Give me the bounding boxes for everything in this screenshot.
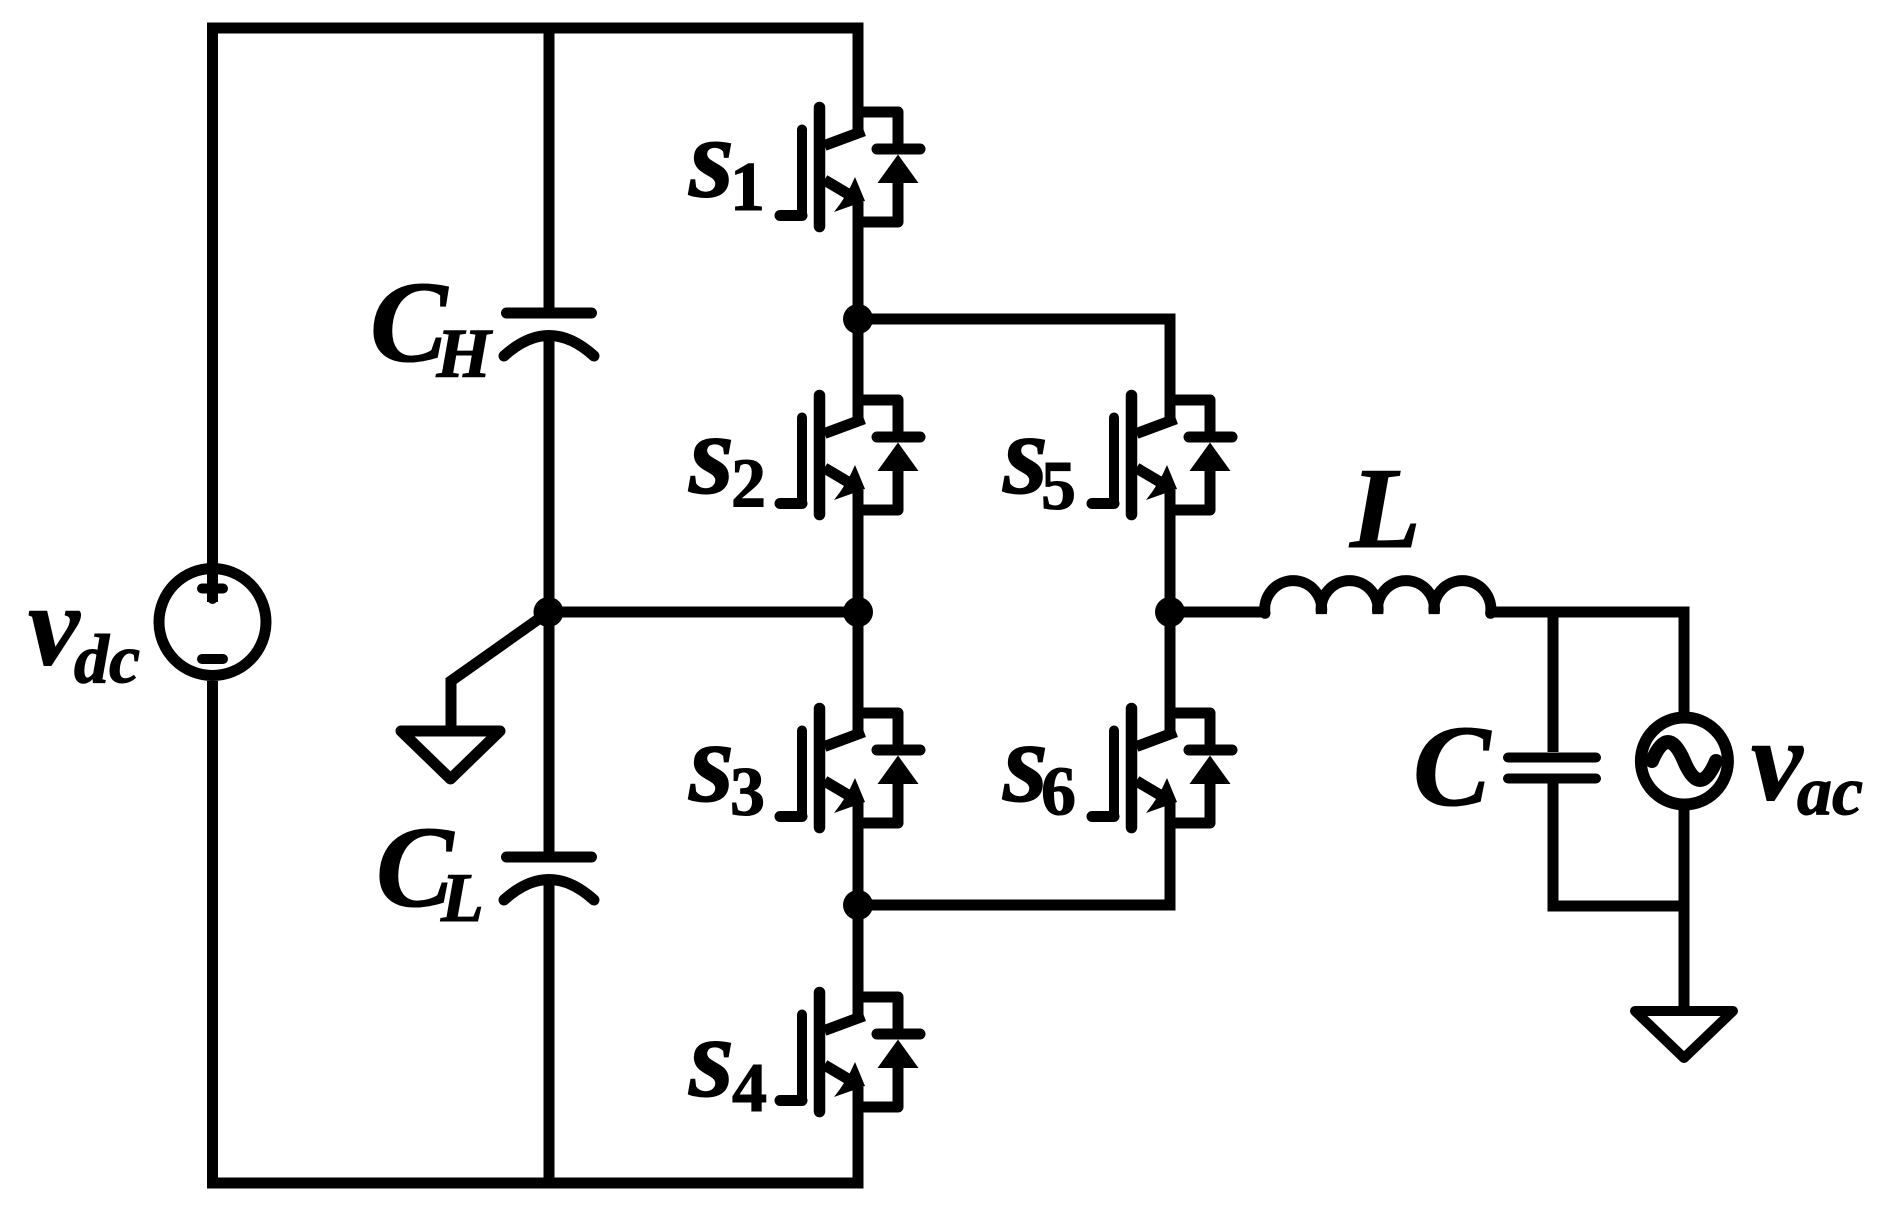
svg-text:2: 2 — [731, 446, 766, 523]
svg-text:1: 1 — [730, 149, 765, 226]
wire capacitor branch upper — [544, 28, 555, 313]
transistor S3 (IGBT) — [780, 709, 920, 828]
wire node A to S5 branch — [858, 319, 1170, 421]
wire left rail lower segment and bottom rail — [213, 681, 864, 1183]
node D junction S3-S4 — [843, 890, 873, 920]
ground (dc midpoint) — [401, 731, 500, 779]
svg-text:3: 3 — [730, 754, 765, 831]
svg-text:s: s — [688, 699, 734, 827]
node E output junction S5-S6 — [1155, 597, 1185, 627]
capacitor C_L — [504, 857, 594, 900]
node A junction S1-S2 — [843, 304, 873, 334]
diode D6 — [1170, 713, 1210, 823]
diode D3 — [858, 713, 898, 823]
wire switch leg 1 vertical segments — [853, 28, 864, 1183]
svg-text:C: C — [1413, 703, 1492, 831]
capacitor C_H — [504, 313, 594, 356]
transistor S2 (IGBT) — [780, 396, 920, 515]
inductor L — [1265, 581, 1491, 614]
diode D4 — [858, 997, 898, 1107]
wire node D to S6 branch — [858, 802, 1170, 905]
diode D5 — [1170, 400, 1210, 510]
capacitor C — [1508, 758, 1596, 779]
svg-text:6: 6 — [1041, 754, 1076, 831]
svg-text:L: L — [440, 860, 484, 937]
transistor S5 (IGBT) — [1092, 396, 1232, 515]
wire ground lead from midpoint — [451, 612, 549, 726]
transistor S6 (IGBT) — [1092, 709, 1232, 828]
svg-text:H: H — [436, 316, 494, 393]
wire C branch lower and bottom link — [1553, 783, 1684, 906]
wire v_ac to ground — [1679, 805, 1690, 1006]
wire capacitor branch middle — [544, 338, 555, 857]
wire switch leg 2 vertical segments — [1165, 490, 1176, 733]
transistor S1 (IGBT) — [780, 108, 920, 227]
voltage source v_dc — [159, 569, 266, 676]
ground (v_ac) — [1635, 1011, 1733, 1058]
svg-text:4: 4 — [732, 1050, 767, 1127]
node B midpoint of dc link — [534, 597, 564, 627]
svg-text:ac: ac — [1797, 754, 1863, 831]
wire inductor to v_ac branch — [1489, 612, 1684, 713]
svg-text:L: L — [1349, 445, 1421, 573]
wire C branch upper — [1548, 612, 1559, 752]
svg-text:5: 5 — [1041, 448, 1076, 525]
node C junction S2-S3 — [843, 597, 873, 627]
diode D1 — [858, 112, 898, 222]
wire node E to inductor — [1170, 607, 1265, 618]
svg-text:dc: dc — [74, 622, 140, 699]
diode D2 — [858, 400, 898, 510]
wire midpoint to S2-S3 junction — [549, 607, 859, 618]
wire top rail and left rail upper segment — [213, 28, 864, 602]
svg-text:s: s — [688, 391, 734, 519]
svg-text:s: s — [688, 95, 734, 223]
wire capacitor branch lower — [544, 882, 555, 1183]
voltage source v_ac — [1641, 718, 1728, 805]
transistor S4 (IGBT) — [780, 993, 920, 1112]
svg-text:s: s — [688, 994, 734, 1122]
